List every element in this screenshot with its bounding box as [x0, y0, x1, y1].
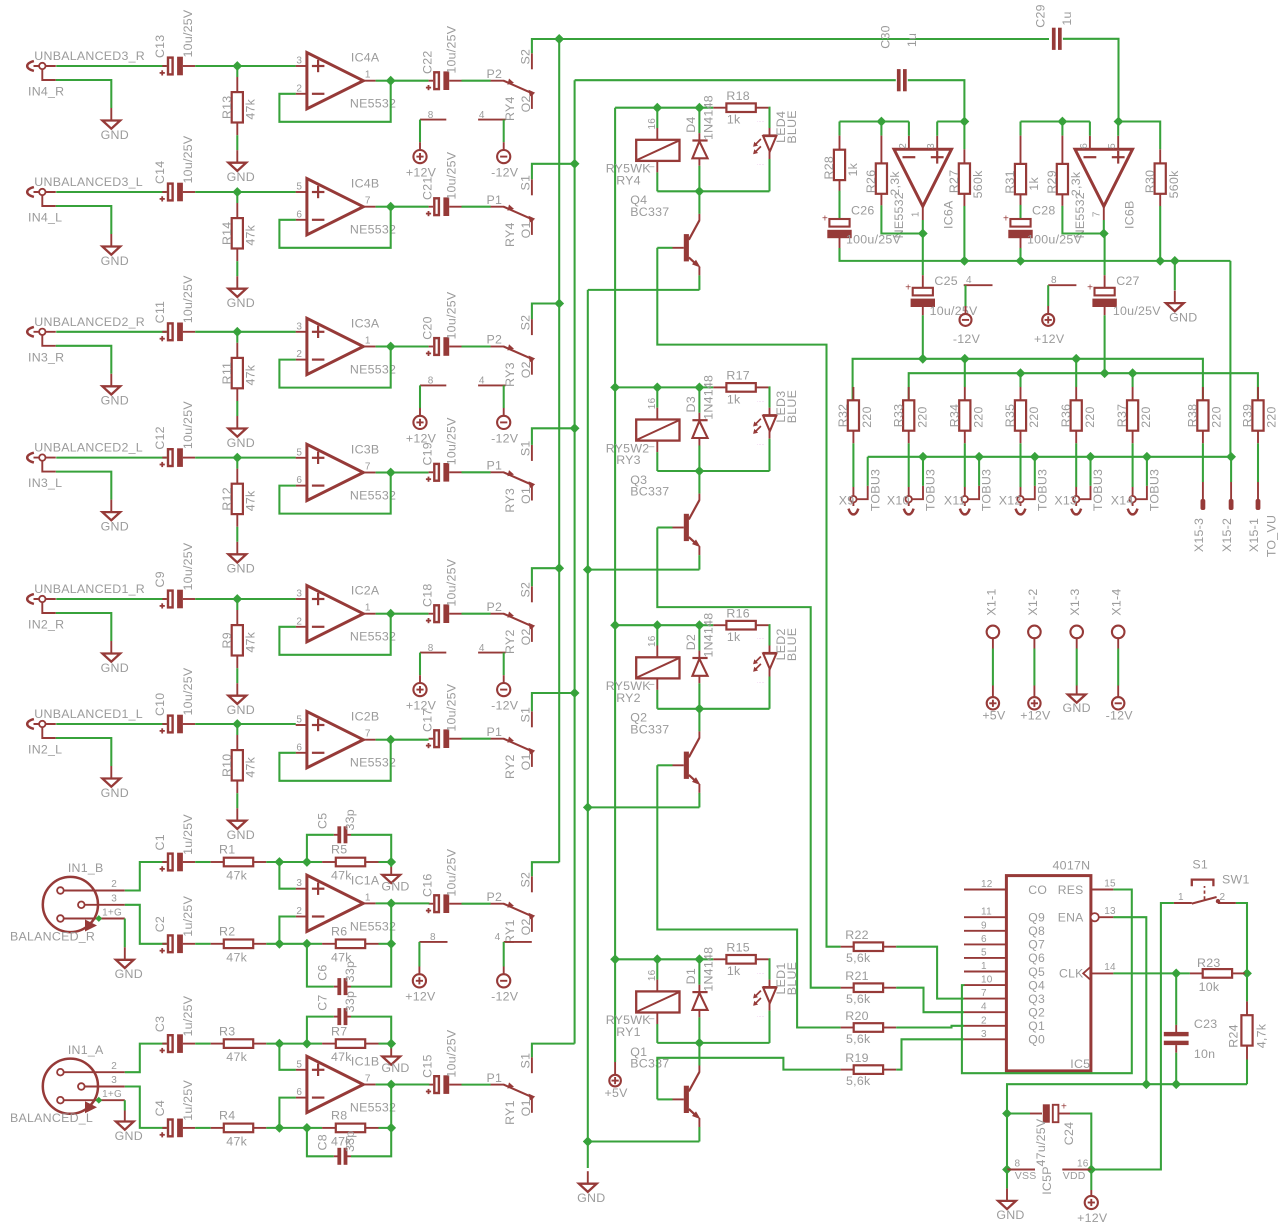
connector X9 TOBU3 — [852, 443, 854, 487]
resistor R23 10k — [1190, 972, 1203, 974]
resistor R7 47k — [322, 1043, 336, 1045]
power pin 4 — [478, 652, 505, 654]
connector X11 TOBU3 — [964, 443, 966, 487]
svg-text:4: 4 — [966, 275, 972, 286]
capacitor C5 33p — [307, 835, 334, 862]
wire collector rail — [657, 708, 769, 710]
svg-text:IN3_L: IN3_L — [28, 476, 62, 490]
svg-text:-12V: -12V — [491, 990, 519, 1004]
wire emitter rail — [588, 1140, 700, 1142]
wire emitter rail — [588, 569, 700, 571]
svg-text:TO_VU: TO_VU — [1264, 515, 1278, 557]
svg-text:TOBU3: TOBU3 — [980, 469, 994, 511]
wire — [376, 1083, 430, 1085]
wire — [237, 457, 295, 459]
svg-text:BLUE: BLUE — [785, 110, 799, 143]
ground — [1076, 686, 1078, 695]
relay contact RY3 S2/P2/O2 — [491, 346, 504, 348]
wire — [236, 261, 238, 276]
capacitor C26 100u/25V — [838, 191, 840, 219]
capacitor C23 10n — [1175, 973, 1177, 1025]
svg-text:Q3: Q3 — [1028, 992, 1045, 1006]
wire — [376, 206, 391, 208]
wire — [56, 331, 167, 333]
resistor R37 220 — [1132, 373, 1134, 387]
input jack IN4_R — [27, 61, 34, 71]
svg-text:1u/25V: 1u/25V — [181, 1080, 195, 1121]
resistor R4 47k — [211, 1127, 224, 1129]
power pin 4 — [964, 284, 993, 286]
svg-text:CO: CO — [1028, 883, 1047, 897]
LED LED1 BLUE — [768, 959, 771, 979]
svg-text:1u: 1u — [905, 33, 919, 47]
svg-text:IC2B: IC2B — [351, 710, 380, 724]
svg-text:C29: C29 — [1033, 4, 1047, 27]
connector pin X1-4 — [1112, 626, 1125, 639]
junction — [695, 620, 705, 630]
capacitor C17 — [429, 738, 434, 740]
wire — [1119, 122, 1161, 150]
wire — [532, 428, 575, 445]
svg-text:9: 9 — [981, 920, 987, 931]
wire — [307, 861, 322, 863]
supply -12V — [503, 142, 505, 150]
svg-text:R5: R5 — [331, 843, 347, 857]
svg-text:+12V: +12V — [1020, 709, 1051, 723]
svg-text:10u/25V: 10u/25V — [444, 558, 458, 606]
svg-text:IN2_R: IN2_R — [28, 618, 64, 632]
svg-text:IN1_B: IN1_B — [68, 861, 104, 875]
svg-text:R20: R20 — [845, 1009, 868, 1023]
svg-text:O2: O2 — [519, 95, 533, 112]
svg-text:․․․․․: ․․․․․ — [757, 1013, 765, 1018]
wire CLK — [1113, 972, 1190, 974]
junction — [302, 1123, 312, 1133]
svg-text:4: 4 — [495, 932, 501, 943]
svg-text:IN1_A: IN1_A — [68, 1043, 104, 1057]
wire relay rail — [615, 624, 713, 626]
relay coil RY1 — [656, 959, 658, 979]
junction — [302, 857, 312, 867]
capacitor C20 — [429, 346, 434, 348]
junction — [695, 1038, 705, 1048]
wire feedback — [279, 473, 390, 514]
capacitor C3 1u/25V — [162, 1043, 167, 1045]
svg-text:GND: GND — [115, 1129, 143, 1143]
input jack IN3_R — [27, 327, 34, 337]
svg-text:C12: C12 — [153, 426, 167, 449]
wire — [462, 80, 491, 82]
wire emitter rail — [588, 289, 700, 291]
connector pin X1-3 — [1070, 626, 1083, 639]
svg-text:O1: O1 — [519, 221, 533, 238]
wire — [279, 1098, 295, 1128]
svg-text:-12V: -12V — [491, 431, 519, 445]
svg-text:CLK: CLK — [1059, 967, 1083, 981]
svg-text:IN3_R: IN3_R — [28, 350, 64, 364]
junction — [386, 1039, 396, 1049]
wire — [125, 905, 167, 944]
wire feedback — [279, 81, 390, 122]
svg-text:X10: X10 — [887, 494, 910, 508]
svg-text:2: 2 — [981, 1015, 987, 1026]
wire — [503, 385, 505, 408]
svg-text:7: 7 — [365, 196, 371, 207]
svg-text:X15-1: X15-1 — [1247, 518, 1261, 552]
junction — [652, 103, 662, 113]
svg-text:7: 7 — [1091, 211, 1102, 217]
ground — [236, 683, 238, 696]
wire +5V bus — [614, 108, 616, 1062]
junction — [1114, 117, 1124, 127]
svg-text:47k: 47k — [331, 869, 352, 883]
wire base — [657, 526, 672, 528]
diode D1 — [698, 959, 700, 984]
svg-text:C20: C20 — [421, 316, 435, 339]
svg-text:47k: 47k — [244, 224, 258, 245]
svg-text:GND: GND — [115, 967, 143, 981]
svg-text:TOBU3: TOBU3 — [868, 469, 882, 511]
svg-text:S2: S2 — [518, 315, 532, 331]
junction — [570, 423, 580, 433]
svg-text:GND: GND — [227, 703, 255, 717]
svg-text:R30: R30 — [1143, 170, 1157, 193]
svg-text:3: 3 — [111, 1075, 117, 1086]
wire — [124, 1100, 126, 1110]
resistor R18 — [713, 107, 726, 109]
wire — [1236, 903, 1247, 973]
svg-text:R32: R32 — [836, 404, 850, 427]
svg-text:R17: R17 — [726, 369, 749, 383]
svg-text:P2: P2 — [487, 890, 503, 904]
svg-text:GND: GND — [101, 786, 129, 800]
op-amp IC1B — [307, 1056, 363, 1112]
svg-text:2: 2 — [296, 906, 302, 917]
svg-text:RY3: RY3 — [503, 362, 517, 387]
junction — [386, 735, 396, 745]
svg-text:GND: GND — [101, 128, 129, 142]
svg-text:C30: C30 — [878, 25, 892, 48]
wire R20 to IC5 Q1 — [896, 1026, 964, 1028]
svg-text:R9: R9 — [220, 632, 234, 648]
svg-text:1u: 1u — [1060, 11, 1074, 25]
svg-text:–: – — [649, 441, 655, 452]
capacitor C16 — [429, 903, 434, 905]
svg-text:GND: GND — [101, 254, 129, 268]
svg-text:220: 220 — [971, 406, 985, 427]
wire — [237, 723, 295, 725]
wire — [307, 943, 322, 945]
ground — [390, 862, 392, 867]
wire — [391, 739, 429, 741]
svg-text:8: 8 — [430, 932, 436, 943]
svg-text:S1: S1 — [1192, 858, 1208, 872]
ground — [236, 150, 238, 163]
wire — [462, 903, 491, 905]
relay contact RY2 S2/P2/O2 — [491, 613, 504, 615]
connector X13 TOBU3 — [1075, 443, 1077, 487]
svg-text:IC6B: IC6B — [1123, 200, 1137, 229]
wire — [125, 1044, 167, 1073]
resistor R22 — [841, 946, 854, 948]
wire — [376, 80, 391, 82]
svg-text:2: 2 — [1220, 892, 1226, 903]
svg-text:6: 6 — [296, 475, 302, 486]
ground — [1006, 1170, 1008, 1189]
svg-text:D4: D4 — [684, 116, 698, 132]
svg-text:1u/25V: 1u/25V — [181, 895, 195, 936]
ground — [110, 641, 112, 654]
input jack IN2_L — [27, 719, 34, 729]
svg-text:TOBU3: TOBU3 — [1035, 469, 1049, 511]
wire feedback — [279, 207, 390, 248]
ground — [1174, 261, 1176, 290]
svg-text:UNBALANCED1_L: UNBALANCED1_L — [34, 707, 143, 721]
svg-text:10u/25V: 10u/25V — [444, 151, 458, 199]
svg-text:+: + — [822, 214, 828, 225]
wire — [56, 472, 112, 500]
supply -12V — [503, 408, 505, 416]
svg-text:220: 220 — [860, 406, 874, 427]
wire — [376, 345, 391, 347]
svg-text:16: 16 — [647, 118, 658, 130]
svg-text:47k: 47k — [244, 756, 258, 777]
svg-text:-12V: -12V — [491, 699, 519, 713]
svg-text:10u/25V: 10u/25V — [1113, 304, 1161, 318]
svg-text:GND: GND — [381, 1061, 409, 1075]
connector pin X15-1 — [1257, 443, 1259, 482]
svg-text:GND: GND — [996, 1208, 1024, 1222]
svg-text:C13: C13 — [153, 35, 167, 58]
svg-text:BLUE: BLUE — [785, 390, 799, 423]
svg-text:RY1: RY1 — [503, 919, 517, 944]
svg-text:10u/25V: 10u/25V — [181, 275, 195, 323]
relay coil RY4 — [656, 108, 658, 128]
svg-text:D2: D2 — [684, 634, 698, 650]
wire Q2 base to R20 — [657, 765, 840, 1027]
junction — [232, 453, 242, 463]
input jack IN4_L — [27, 187, 34, 197]
junction — [570, 688, 580, 698]
power pin 8 — [420, 652, 446, 654]
wire — [391, 345, 429, 347]
connector X14 TOBU3 — [1132, 443, 1134, 487]
junction — [275, 857, 285, 867]
resistor R36 220 — [1075, 359, 1077, 387]
svg-text:47k: 47k — [244, 364, 258, 385]
wire — [195, 861, 211, 863]
svg-text:1+G: 1+G — [102, 908, 122, 919]
svg-text:IC5P: IC5P — [1040, 1166, 1054, 1195]
wire — [195, 65, 237, 67]
resistor R24 4,7k — [1246, 973, 1248, 1001]
wire feedback rail — [840, 120, 909, 122]
svg-text:560k: 560k — [1167, 170, 1181, 198]
wire collector rail — [657, 1042, 769, 1044]
wire Q4 base to R22 — [657, 248, 840, 947]
resistor R30 — [1159, 149, 1161, 163]
svg-text:․․․․․: ․․․․․ — [757, 441, 765, 446]
resistor R26 — [880, 122, 882, 136]
wire — [56, 191, 167, 193]
svg-text:6: 6 — [981, 934, 987, 945]
junction — [95, 1097, 102, 1104]
wire — [195, 191, 237, 193]
svg-text:C15: C15 — [421, 1054, 435, 1077]
wire emitter rail — [588, 806, 700, 808]
junction — [877, 117, 887, 127]
svg-text:220: 220 — [1265, 406, 1279, 427]
svg-text:GND: GND — [227, 170, 255, 184]
svg-text:RY4: RY4 — [616, 173, 641, 187]
svg-text:6: 6 — [296, 1087, 302, 1098]
svg-text:C6: C6 — [315, 964, 329, 980]
resistor R39 220 — [1257, 387, 1259, 400]
capacitor C18 — [429, 613, 434, 615]
connector X12 TOBU3 — [1019, 443, 1021, 487]
svg-text:33p: 33p — [343, 961, 357, 982]
wire — [237, 331, 295, 333]
svg-text:15: 15 — [1104, 878, 1116, 889]
svg-text:3: 3 — [111, 894, 117, 905]
svg-text:RY2: RY2 — [616, 691, 641, 705]
svg-text:10u/25V: 10u/25V — [181, 9, 195, 57]
wire — [56, 598, 167, 600]
junction — [1071, 354, 1081, 364]
supply -12V — [503, 675, 505, 683]
wire — [1229, 261, 1231, 457]
svg-text:X9: X9 — [839, 494, 855, 508]
op-amp IC2B — [307, 712, 363, 768]
wire — [195, 943, 211, 945]
svg-text:R27: R27 — [947, 170, 961, 193]
svg-text:R4: R4 — [219, 1109, 235, 1123]
svg-text:C24: C24 — [1062, 1122, 1076, 1145]
svg-text:C28: C28 — [1032, 204, 1055, 218]
svg-text:C17: C17 — [421, 708, 435, 731]
svg-text:Q8: Q8 — [1028, 924, 1045, 938]
resistor R1 47k — [211, 861, 224, 863]
svg-text:․․․․․: ․․․․․ — [757, 969, 765, 974]
capacitor C24 47u/25V — [1007, 1112, 1030, 1114]
resistor R17 — [713, 386, 726, 388]
svg-text:12: 12 — [981, 879, 993, 890]
svg-text:3: 3 — [296, 878, 302, 889]
svg-text:ENA: ENA — [1058, 911, 1084, 925]
svg-text:1u/25V: 1u/25V — [181, 995, 195, 1036]
svg-text:4: 4 — [479, 643, 485, 654]
wire — [195, 1043, 211, 1045]
junction — [570, 159, 580, 169]
wire — [532, 304, 559, 320]
wire — [279, 862, 295, 889]
supply +12V — [419, 675, 421, 683]
wire — [419, 385, 421, 408]
junction — [386, 1080, 396, 1090]
junction — [1058, 117, 1068, 127]
capacitor C14 — [162, 191, 167, 193]
svg-text:Q9: Q9 — [1028, 911, 1045, 925]
svg-text:P2: P2 — [487, 600, 503, 614]
svg-text:3: 3 — [296, 56, 302, 67]
svg-text:R6: R6 — [331, 925, 347, 939]
capacitor C15 — [429, 1084, 434, 1086]
svg-text:1k: 1k — [727, 113, 741, 127]
svg-text:5: 5 — [1107, 143, 1118, 149]
power pin 8 — [420, 384, 446, 386]
supply -12V — [1117, 686, 1119, 698]
wire — [279, 917, 295, 944]
svg-text:RY4: RY4 — [503, 96, 517, 121]
resistor R21 — [841, 987, 854, 989]
switch S1 SW1 — [1174, 902, 1192, 904]
resistor R19 — [841, 1069, 854, 1071]
capacitor C25 — [922, 234, 924, 276]
svg-text:C19: C19 — [421, 442, 435, 465]
wire — [462, 206, 491, 208]
svg-text:NE5532: NE5532 — [1073, 192, 1087, 238]
svg-text:1: 1 — [365, 336, 371, 347]
svg-text:16: 16 — [1077, 1159, 1089, 1170]
svg-text:1N4148: 1N4148 — [701, 375, 715, 420]
svg-text:UNBALANCED2_L: UNBALANCED2_L — [34, 441, 143, 455]
svg-text:47u/25V: 47u/25V — [1034, 1118, 1048, 1166]
svg-text:R13: R13 — [220, 96, 234, 119]
svg-text:TOBU3: TOBU3 — [924, 469, 938, 511]
junction — [1086, 452, 1096, 462]
junction — [652, 620, 662, 630]
svg-text:4,7k: 4,7k — [1254, 1023, 1268, 1048]
svg-text:C1: C1 — [153, 834, 167, 850]
svg-text:2: 2 — [296, 83, 302, 94]
connector pin X15-2 — [1230, 457, 1232, 482]
svg-text:+: + — [1003, 214, 1009, 225]
svg-text:GND: GND — [101, 394, 129, 408]
supply +5V — [992, 686, 994, 698]
svg-text:1u/25V: 1u/25V — [181, 814, 195, 855]
wire — [266, 943, 307, 945]
wire — [236, 401, 238, 416]
wire — [236, 458, 238, 469]
junction — [918, 452, 928, 462]
svg-text:8: 8 — [428, 376, 434, 387]
capacitor C12 — [162, 457, 167, 459]
svg-text:R38: R38 — [1186, 404, 1200, 427]
wire — [266, 1043, 307, 1045]
wire — [532, 862, 559, 876]
supply +12V — [419, 142, 421, 150]
junction — [652, 954, 662, 964]
svg-text:3: 3 — [296, 589, 302, 600]
relay contact RY4 S2/P2/O2 — [491, 80, 504, 82]
junction — [695, 186, 705, 196]
supply +12V — [419, 408, 421, 416]
connector X10 TOBU3 — [908, 443, 910, 487]
svg-text:IN2_L: IN2_L — [28, 743, 62, 757]
supply +12V — [1090, 1170, 1092, 1191]
junction — [695, 704, 705, 714]
wire — [503, 653, 505, 676]
resistor R15 — [713, 958, 726, 960]
svg-text:+12V: +12V — [1034, 332, 1065, 346]
svg-text:1N4148: 1N4148 — [701, 947, 715, 992]
svg-text:NE5532: NE5532 — [350, 488, 396, 502]
svg-text:10u/25V: 10u/25V — [181, 135, 195, 183]
wire — [124, 919, 126, 948]
junction — [1141, 1079, 1151, 1089]
svg-text:10: 10 — [981, 975, 993, 986]
svg-text:16: 16 — [647, 969, 658, 981]
